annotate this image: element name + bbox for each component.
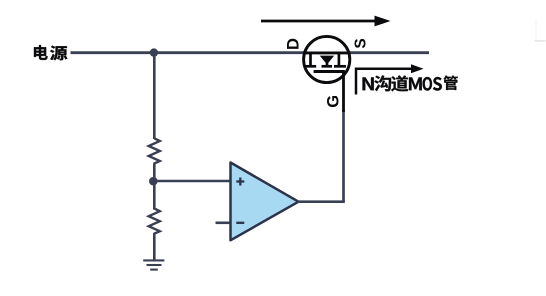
callout arrow to MOSFET	[356, 64, 424, 94]
current direction arrow	[261, 16, 391, 27]
Q1 source contact	[334, 53, 346, 66]
node: divider midpoint	[149, 177, 158, 186]
svg-text:D: D	[284, 38, 302, 50]
resistor R1	[149, 138, 160, 165]
wire: main supply rail	[71, 51, 430, 54]
Q1 drain contact	[306, 53, 317, 66]
op-amp + input mark	[236, 178, 244, 186]
Q1 channel line D-S	[303, 51, 350, 54]
transistor Q1 N-channel MOSFET body	[304, 36, 350, 82]
wire: op-amp output	[297, 200, 345, 203]
node: junction on supply rail	[150, 48, 158, 56]
wire: gate lead vertical	[342, 110, 345, 202]
op-amp - input mark	[236, 222, 244, 224]
Q1 body arrow	[320, 56, 335, 67]
wire: R1 to mid node	[153, 165, 156, 183]
label N沟道MOS管	[363, 75, 458, 91]
wire: R2 to ground	[153, 234, 156, 261]
Q1 gate bar	[314, 70, 345, 73]
wire: mid node to op-amp + input	[154, 180, 231, 183]
faint screenshot artifact top right	[535, 40, 546, 42]
svg-text:G: G	[324, 95, 342, 108]
resistor R2	[149, 209, 160, 236]
svg-text:S: S	[353, 38, 370, 48]
wire: stub to op-amp - input	[216, 222, 232, 225]
op-amp U1	[231, 163, 299, 241]
wire: divider top	[153, 53, 156, 139]
wire: mid node to R2	[153, 181, 156, 210]
ground	[143, 260, 164, 269]
Q1 gate lead (black part)	[342, 72, 345, 113]
label 电源 (power supply)	[34, 45, 67, 60]
